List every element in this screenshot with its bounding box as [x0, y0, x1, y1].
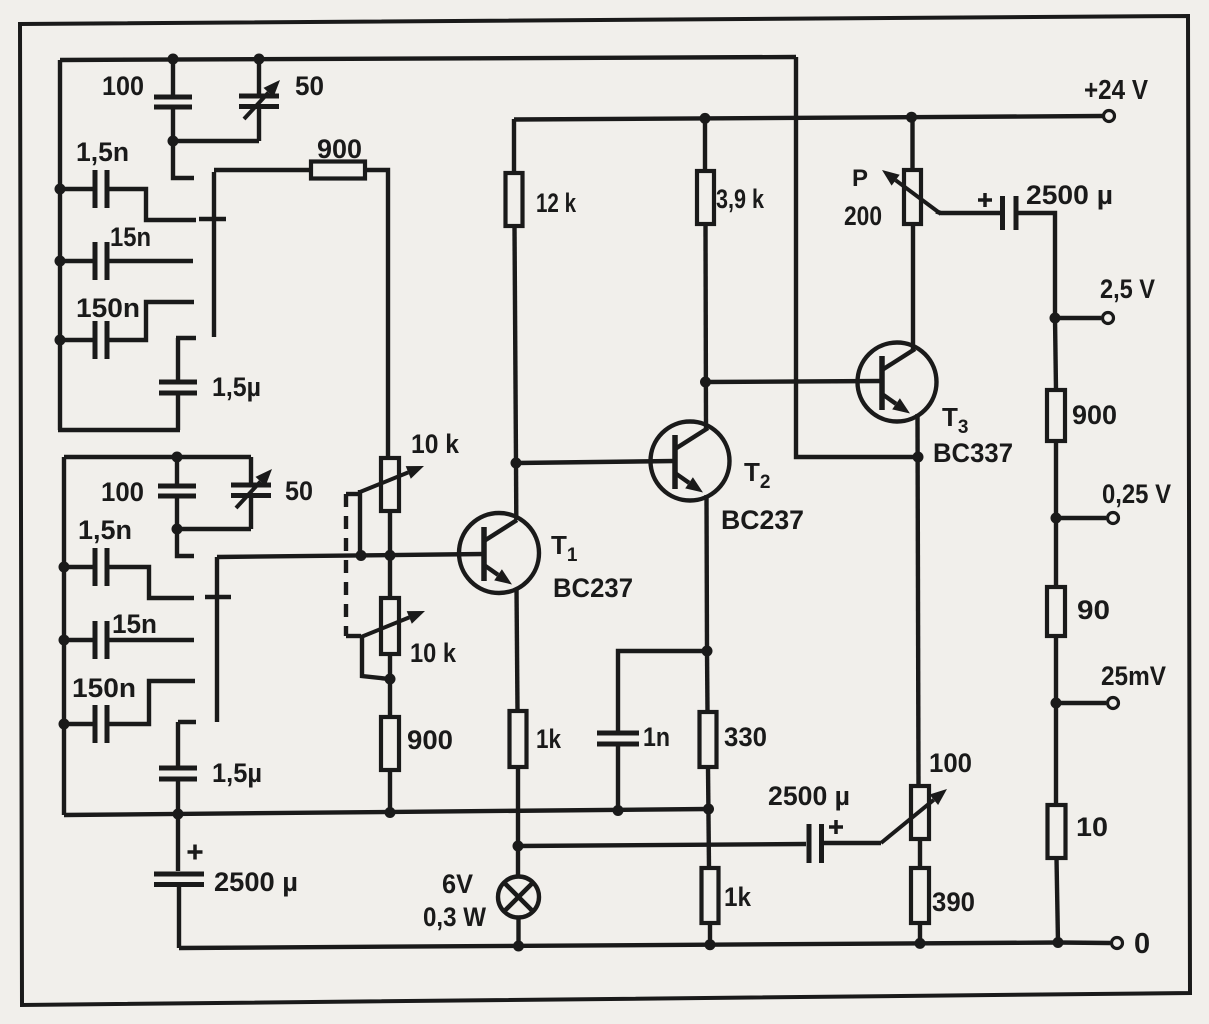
capacitor 2500u (bank bypass) [176, 815, 180, 871]
potentiometer 100 [911, 786, 929, 839]
node: lamp bottom [513, 941, 524, 952]
svg-text:P: P [852, 165, 868, 192]
wire: T3 emitter down to 100 pot [918, 414, 919, 786]
capacitor 1,5n bank2 [64, 565, 94, 569]
svg-text:15n: 15n [110, 222, 151, 252]
wire: T1 collector to T2 base [516, 461, 675, 463]
resistor 900 (ladder) [1055, 318, 1056, 390]
trimmer capacitor 50p bank2 [249, 457, 253, 484]
node: +24V rail / 3,9k [700, 113, 711, 124]
svg-text:25mV: 25mV [1101, 661, 1166, 691]
resistor 10 (ladder) [1054, 703, 1058, 805]
svg-text:6V: 6V [442, 869, 473, 899]
wire: selector stub from 100p/50p [173, 141, 194, 178]
node: left rail2 / 1,5n [59, 562, 70, 573]
svg-text:90: 90 [1077, 595, 1110, 625]
svg-text:50: 50 [285, 476, 313, 506]
node: left rail / 150n [55, 335, 66, 346]
svg-text:2500 µ: 2500 µ [1026, 180, 1113, 210]
svg-text:50: 50 [295, 71, 324, 101]
resistor 900 (oscillator) [214, 168, 311, 172]
capacitor 150n bank2 [64, 722, 94, 726]
node: bank2 100p bottom junction [172, 524, 183, 535]
svg-text:10: 10 [1076, 812, 1108, 842]
transistor T2 BC237 [651, 422, 730, 501]
svg-text:330: 330 [724, 722, 767, 752]
node: 1n bottom / mid rail [613, 805, 624, 816]
svg-text:BC237: BC237 [721, 505, 804, 535]
capacitor 15n bank2 [64, 638, 94, 642]
svg-text:1,5n: 1,5n [78, 515, 132, 545]
resistor 1k (T2 emitter) [702, 868, 719, 923]
svg-text:15n: 15n [112, 609, 157, 639]
resistor 12k [512, 119, 516, 173]
capacitor 1,5n bank1 [60, 187, 94, 191]
svg-text:100: 100 [101, 477, 144, 507]
node: left rail2 / 150n [59, 719, 70, 730]
terminal +24V [1104, 111, 1115, 122]
wire: bank2 100p to 50p bottom [177, 527, 251, 531]
svg-text:900: 900 [407, 725, 453, 755]
capacitor 100p bank2 [175, 457, 179, 485]
svg-text:1,5µ: 1,5µ [212, 372, 261, 402]
svg-text:0,25 V: 0,25 V [1102, 479, 1171, 509]
capacitor 1n [618, 651, 707, 732]
node: ladder 25mV [1051, 698, 1062, 709]
svg-text:10 k: 10 k [410, 638, 457, 668]
resistor 390 [911, 868, 929, 923]
wire: 2,5V tap stub [1055, 316, 1101, 320]
node: T2 emitter / 1n branch [702, 646, 713, 657]
terminal 0 [1112, 938, 1123, 949]
svg-text:1,5n: 1,5n [76, 137, 129, 167]
node: bank1 rail / 50p [254, 54, 265, 65]
wire: bank2 top rail [64, 455, 251, 459]
node: bank2 rail / 100p [172, 452, 183, 463]
svg-text:2,5 V: 2,5 V [1100, 274, 1155, 304]
terminal 2,5V [1103, 313, 1114, 324]
wire: selector bus bank1 [212, 172, 216, 337]
wire: selector bus bank2 [215, 557, 219, 722]
wire: selector stub bank2 [177, 529, 194, 556]
svg-text:150n: 150n [72, 673, 136, 703]
svg-text:+24 V: +24 V [1084, 74, 1148, 105]
node: +24V rail / P200 [906, 112, 917, 123]
capacitor 2500u (to 2,5V tap) [936, 212, 1000, 214]
capacitor 1,5u bank1 [176, 336, 196, 340]
svg-text:1k: 1k [724, 882, 752, 912]
wire: T1 emitter down [517, 588, 518, 711]
node: pot chain / T1 base wire [385, 550, 396, 561]
svg-text:3,9 k: 3,9 k [716, 184, 765, 214]
wire: T2 collector branch to T3 base [706, 381, 883, 382]
node: 3,9k / T3 base branch [700, 377, 711, 388]
transistor T1 BC237 [459, 513, 539, 593]
svg-text:BC237: BC237 [553, 573, 633, 603]
capacitor 2500u (output coupling) [807, 824, 812, 863]
node: 100p bottom junction [168, 136, 179, 147]
capacitor 150n bank1 [60, 338, 94, 342]
wire: 0 terminal stub [1058, 940, 1110, 945]
svg-text:10 k: 10 k [411, 429, 460, 459]
svg-text:1n: 1n [643, 722, 670, 752]
svg-text:900: 900 [317, 134, 362, 164]
wire: T1 emitter to coupling cap [518, 844, 806, 846]
wire: T2 emitter down [704, 495, 709, 651]
svg-text:1,5µ: 1,5µ [212, 758, 262, 788]
svg-text:150n: 150n [76, 293, 140, 323]
svg-text:0: 0 [1134, 928, 1150, 960]
resistor 90 (ladder) [1054, 518, 1058, 587]
lamp 6V 0,3W [498, 877, 539, 918]
node: T1 emitter / output coupling [513, 841, 524, 852]
potentiometer 10k upper [381, 458, 399, 511]
wire: 100p to 50p bottom [173, 139, 259, 143]
potentiometer P 200 [904, 170, 921, 224]
node: 390 bottom [915, 938, 926, 949]
wire: bottom ground rail [179, 943, 1058, 949]
switch wiper tick bank1 [199, 217, 226, 221]
node: T3 emitter / feedback [913, 452, 924, 463]
node: T1 collector / 12k / to T2 [511, 458, 522, 469]
terminal 25mV [1108, 698, 1119, 709]
node: lower pot wiper junction [385, 674, 396, 685]
node: bank1 rail / 100p [168, 54, 179, 65]
resistor 3,9k [703, 118, 707, 171]
svg-text:1k: 1k [536, 724, 562, 754]
node: left rail / 15n [55, 256, 66, 267]
wire: bank1 left rail [58, 60, 62, 430]
wire: feedback from bank1 top rail [796, 57, 918, 457]
svg-text:390: 390 [932, 887, 975, 917]
wire: T3 collector up to P200 [911, 224, 915, 350]
terminal 0,25V [1108, 513, 1119, 524]
wire: bank2 left rail [62, 457, 66, 815]
svg-text:0,3 W: 0,3 W [423, 902, 486, 932]
svg-text:900: 900 [1072, 400, 1117, 430]
node: ladder 0 [1053, 937, 1064, 948]
wire: oscillator node to T1 base [217, 554, 484, 557]
node: ladder 2,5V [1050, 313, 1061, 324]
svg-text:BC337: BC337 [933, 438, 1013, 468]
capacitor 15n bank1 [60, 259, 94, 263]
node: 900 bottom / mid rail [385, 807, 396, 818]
svg-text:2500 µ: 2500 µ [214, 867, 298, 897]
node: left rail2 / 15n [59, 635, 70, 646]
wire: +24V rail [514, 116, 1103, 120]
potentiometer 10k lower [388, 511, 392, 598]
gang link dashed [346, 492, 361, 496]
capacitor 100p bank1 [171, 58, 175, 96]
trimmer capacitor 50p bank1 [257, 58, 261, 95]
resistor 330 [705, 651, 710, 712]
wire: mid rail (feedback/ground reference) [64, 809, 709, 815]
svg-text:12 k: 12 k [536, 188, 577, 218]
svg-text:200: 200 [844, 201, 882, 231]
wire: bank1 bottom rail [58, 428, 180, 432]
node: upper pot wiper junction [356, 550, 367, 561]
svg-text:2500 µ: 2500 µ [768, 781, 850, 811]
svg-text:100: 100 [929, 748, 972, 778]
resistor 900 (below pots) [388, 654, 392, 717]
wire: T1 collector up [514, 463, 519, 520]
capacitor 1,5u bank2 [178, 720, 196, 724]
switch wiper tick bank2 [205, 595, 231, 599]
node: ladder 0,25V [1051, 513, 1062, 524]
node: mid rail / 1,5u2 / 2500u3 [173, 809, 184, 820]
node: 1k2 bottom [705, 939, 716, 950]
wire: 0,25V tap stub [1056, 516, 1106, 520]
transistor T3 BC337 [858, 343, 937, 422]
node: left rail / 1,5n [55, 184, 66, 195]
node: 330 bottom / mid rail end [703, 804, 714, 815]
wire: 25mV tap stub [1056, 701, 1106, 705]
resistor 1k (T1 emitter) [510, 711, 527, 767]
wire: bank1 top rail [60, 57, 796, 60]
svg-text:100: 100 [102, 71, 144, 101]
